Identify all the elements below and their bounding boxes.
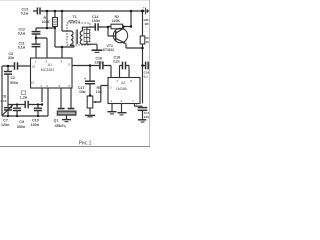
svg-text:500п: 500п: [10, 81, 18, 85]
svg-text:10: 10: [31, 81, 35, 85]
svg-text:220К: 220К: [112, 19, 121, 23]
svg-text:100К: 100К: [42, 20, 51, 24]
svg-text:1,2м: 1,2м: [20, 96, 28, 100]
svg-text:10м: 10м: [79, 90, 86, 94]
svg-text:C9: C9: [19, 120, 24, 124]
svg-text:1К: 1К: [146, 40, 150, 44]
svg-text:+: +: [136, 103, 138, 107]
svg-text:Q1: Q1: [54, 119, 59, 123]
svg-text:1300п: 1300п: [95, 61, 104, 65]
svg-text:LM386: LM386: [116, 87, 127, 91]
svg-text:C7: C7: [3, 118, 8, 122]
svg-text:2: 2: [46, 84, 48, 88]
svg-text:4: 4: [45, 60, 47, 64]
svg-text:A1: A1: [48, 63, 52, 67]
svg-text:120п: 120п: [1, 123, 9, 127]
svg-text:8: 8: [130, 79, 132, 83]
svg-text:16: 16: [32, 65, 36, 69]
svg-text:C10: C10: [32, 118, 39, 122]
svg-text:A2: A2: [121, 81, 125, 85]
svg-text:455кГц: 455кГц: [68, 20, 81, 24]
svg-text:5: 5: [68, 84, 70, 88]
svg-text:455кГц: 455кГц: [55, 124, 66, 128]
svg-text:0,1: 0,1: [144, 74, 149, 78]
svg-text:7: 7: [132, 99, 134, 103]
svg-text:+: +: [143, 6, 145, 10]
svg-text:9В: 9В: [145, 22, 150, 26]
svg-text:1: 1: [35, 60, 37, 64]
svg-text:3: 3: [58, 84, 60, 88]
svg-text:КТ3102: КТ3102: [103, 48, 114, 52]
svg-text:10К: 10К: [96, 90, 103, 94]
svg-text:2,2н: 2,2н: [113, 59, 120, 63]
svg-text:0,1м: 0,1м: [21, 12, 29, 16]
svg-text:9: 9: [68, 63, 70, 67]
svg-text:150п: 150п: [31, 123, 39, 127]
svg-text:3: 3: [110, 86, 112, 90]
svg-text:1: 1: [116, 79, 118, 83]
svg-text:C2: C2: [11, 76, 16, 80]
svg-text:0,1м: 0,1м: [18, 46, 26, 50]
svg-text:+: +: [84, 77, 86, 81]
svg-text:2: 2: [111, 99, 113, 103]
svg-text:1: 1: [40, 84, 42, 88]
svg-text:Рис.1: Рис.1: [79, 141, 92, 147]
svg-text:100п: 100п: [92, 19, 100, 23]
svg-text:100: 100: [144, 115, 149, 119]
svg-text:0,1м: 0,1м: [18, 32, 26, 36]
svg-text:MC3361: MC3361: [41, 68, 55, 72]
svg-text:390п: 390п: [17, 125, 25, 129]
svg-text:4: 4: [120, 99, 122, 103]
svg-text:T1: T1: [73, 15, 77, 19]
svg-text:33п: 33п: [8, 56, 14, 60]
svg-text:4-12: 4-12: [0, 99, 6, 103]
svg-text:5: 5: [60, 60, 62, 64]
